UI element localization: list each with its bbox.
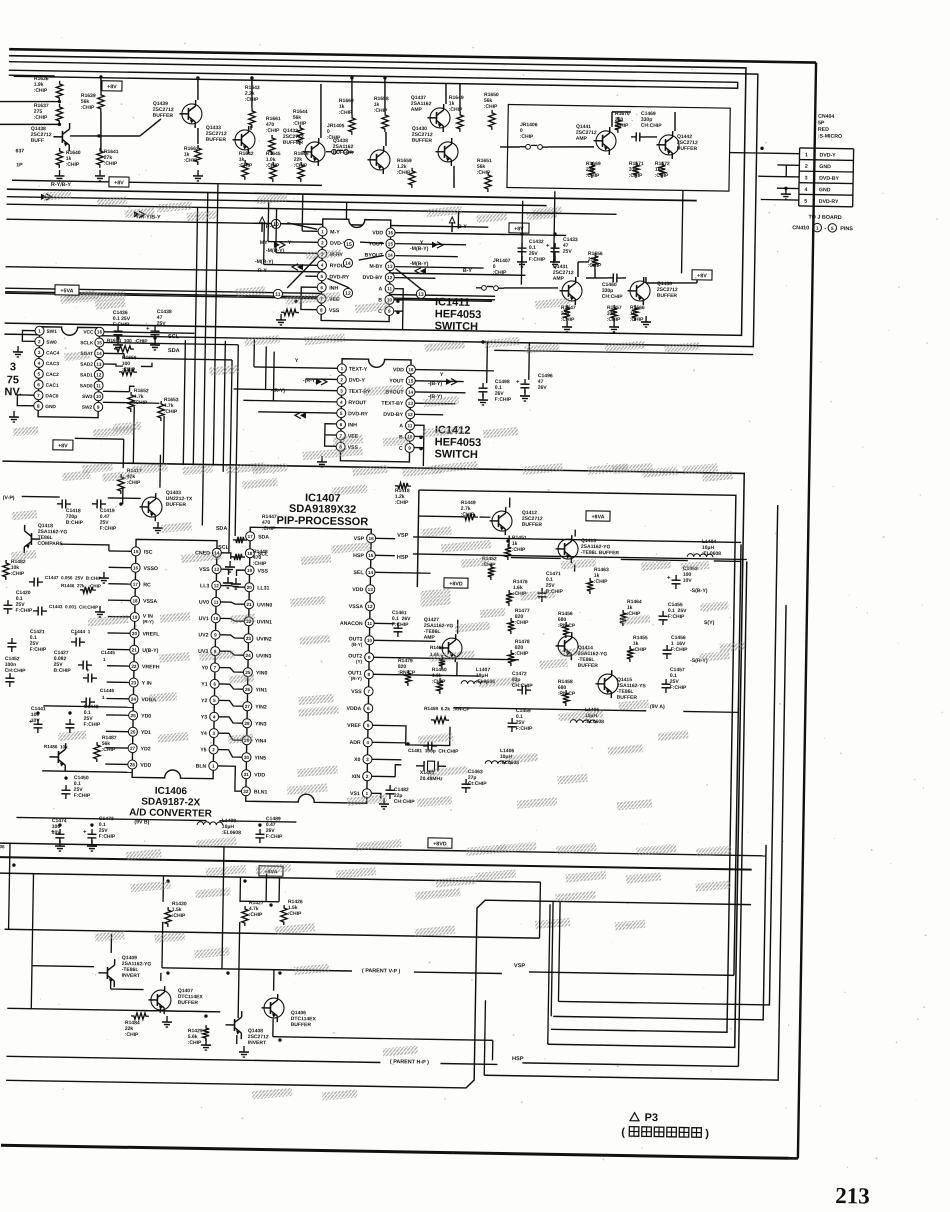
resistor R1642	[242, 160, 249, 180]
wire rail y881	[0, 873, 540, 882]
svg-text:(9V A): (9V A)	[650, 704, 665, 710]
svg-text:10: 10	[387, 297, 393, 302]
svg-text:11: 11	[367, 621, 372, 626]
wire box internals	[548, 146, 594, 148]
node circled 14	[343, 258, 352, 267]
capacitor C1482	[389, 785, 391, 790]
inductor L1406	[485, 761, 511, 765]
svg-text:+8V: +8V	[697, 273, 707, 279]
wire lane 740 VSP	[734, 544, 741, 975]
page border top line 1	[9, 49, 816, 62]
svg-text:BUFFER: BUFFER	[166, 502, 187, 508]
svg-text:HSP: HSP	[353, 553, 364, 559]
resistor R1478	[508, 650, 515, 666]
svg-text:Y4: Y4	[200, 731, 207, 737]
svg-text:COMPARE: COMPARE	[38, 541, 64, 547]
capacitor C1453	[675, 575, 677, 580]
svg-text:30: 30	[244, 755, 250, 760]
svg-text:YD2: YD2	[141, 746, 151, 752]
svg-text:R-Y: R-Y	[258, 268, 268, 274]
svg-text:27: 27	[130, 746, 136, 751]
svg-text:C1443 0.001 CH:CHIP: C1443 0.001 CH:CHIP	[49, 604, 98, 610]
svg-text:13: 13	[96, 362, 102, 367]
resistor R1448	[231, 554, 245, 561]
svg-text:10: 10	[213, 616, 219, 621]
svg-text::RN-CP: :RN-CP	[558, 623, 576, 629]
capacitor C1446	[81, 701, 86, 703]
wire VCC	[104, 332, 194, 334]
svg-text:(R-Y): (R-Y)	[143, 619, 155, 624]
svg-text:LL3: LL3	[200, 583, 209, 589]
svg-text::CHIP: :CHIP	[293, 121, 307, 127]
svg-text:CH:CHIP: CH:CHIP	[641, 123, 663, 129]
arrow Y right	[432, 242, 438, 248]
svg-text:F:CHIP: F:CHIP	[99, 834, 116, 840]
svg-text::CHIP: :CHIP	[512, 547, 526, 553]
svg-text:F:CHIP: F:CHIP	[671, 647, 688, 653]
svg-text:(V-P): (V-P)	[3, 495, 15, 501]
svg-text:27: 27	[245, 704, 251, 709]
svg-text:-TE86L BUFFER: -TE86L BUFFER	[581, 550, 620, 557]
wire rail y1016	[7, 1008, 215, 1011]
resistor R1645	[270, 162, 277, 182]
svg-text:CN404: CN404	[818, 114, 834, 120]
capacitor C1472	[517, 689, 522, 691]
svg-text:X0: X0	[354, 757, 361, 763]
svg-text:SCL: SCL	[168, 334, 180, 340]
svg-text:20: 20	[132, 631, 138, 636]
svg-text:+: +	[83, 829, 87, 835]
svg-text:(: (	[621, 1126, 625, 1138]
svg-text:SW3: SW3	[82, 394, 93, 400]
svg-text:BUFFER: BUFFER	[153, 113, 174, 119]
svg-text:17: 17	[133, 582, 139, 587]
wire Q1439 collector	[197, 78, 200, 100]
svg-text:VREFH: VREFH	[142, 664, 160, 670]
wire IC1412 right stubs	[415, 370, 493, 371]
resistor R1661	[269, 135, 276, 155]
svg-text::CHIP: :CHIP	[127, 480, 141, 486]
wire rail y900-1088 loop	[6, 892, 751, 1092]
resistor R1662	[195, 145, 202, 165]
transistor Q1430	[438, 142, 458, 162]
wire vss19 gnd	[236, 570, 245, 576]
resistor R1476	[506, 590, 513, 606]
svg-text:VSSO: VSSO	[144, 566, 159, 572]
svg-text:DVD-RY: DVD-RY	[329, 274, 349, 280]
resistor R1659	[409, 168, 416, 188]
svg-text:YD0: YD0	[141, 713, 151, 719]
svg-text:CH:CHIP: CH:CHIP	[394, 799, 416, 805]
wire band extensions	[507, 212, 617, 214]
svg-text:25: 25	[131, 713, 137, 718]
capacitor C1481	[423, 745, 428, 747]
op-amp IC1411 switch	[321, 219, 391, 322]
svg-text:B:CHIP: B:CHIP	[66, 520, 84, 526]
svg-text:10V: 10V	[683, 578, 693, 584]
capacitor C1452	[9, 673, 11, 678]
svg-text:F:CHIP: F:CHIP	[84, 722, 101, 728]
resistor to VSS	[281, 309, 299, 316]
wire cned/vss hooks	[221, 553, 231, 559]
resistor R1651	[485, 172, 492, 192]
svg-text:SDA: SDA	[258, 534, 269, 540]
wire top rail	[14, 76, 738, 88]
wire rail y865 thick	[0, 857, 752, 870]
svg-text:F:CHIP: F:CHIP	[30, 647, 47, 653]
svg-text:-: -	[824, 226, 826, 232]
transistor Q1415	[598, 674, 618, 694]
resistor R1451	[505, 544, 512, 560]
svg-text:+: +	[86, 668, 90, 674]
capacitor C1419	[92, 503, 97, 505]
power +5VA box left	[55, 285, 79, 295]
wire IC1411 left stubs	[302, 230, 317, 232]
svg-text:R-Y: R-Y	[266, 224, 276, 230]
wire res rails	[162, 876, 164, 902]
svg-text::CHIP: :CHIP	[374, 108, 388, 114]
capacitor C1463	[465, 779, 467, 784]
svg-text:ADR: ADR	[349, 740, 361, 746]
svg-text:RC: RC	[143, 582, 151, 588]
svg-text:GND: GND	[819, 187, 831, 193]
resistor R1479	[405, 670, 412, 686]
wire parent V-P line	[212, 969, 352, 971]
wire Q1442 to CN404 row1	[730, 153, 800, 154]
resistor R1427	[242, 906, 249, 926]
svg-text:13: 13	[368, 587, 374, 592]
svg-text:C: C	[399, 446, 403, 452]
resistor R1658	[382, 112, 389, 132]
wire SDA/SCL verticals	[235, 345, 238, 536]
svg-text:VDD: VDD	[372, 230, 383, 236]
svg-text:28: 28	[244, 721, 250, 726]
resistor R1641	[97, 148, 104, 168]
svg-text:CN410: CN410	[792, 225, 809, 231]
svg-text:TEXT-BY: TEXT-BY	[381, 401, 404, 407]
resistor R1653	[158, 401, 165, 421]
svg-text:23: 23	[246, 636, 252, 641]
svg-text::RN-CP: :RN-CP	[558, 691, 576, 697]
bus frame E (PIP inner)	[410, 490, 736, 1032]
capacitor C1436	[117, 326, 119, 331]
svg-text:AMP: AMP	[411, 107, 423, 113]
svg-text::CHIP: :CHIP	[172, 913, 186, 919]
wire vdd rail2	[42, 771, 132, 772]
ground Q1431 cluster	[566, 321, 568, 327]
svg-text:20: 20	[247, 585, 253, 590]
power +8V box d	[692, 270, 712, 280]
svg-text:1: 1	[805, 152, 808, 158]
svg-text:16: 16	[408, 367, 414, 372]
power +8VA box bottom	[259, 866, 283, 876]
svg-text::CHIP: :CHIP	[515, 620, 529, 626]
wire IC1411 stub verticals	[267, 201, 270, 241]
svg-text::CHIP: :CHIP	[477, 170, 491, 176]
svg-text:10V: 10V	[52, 830, 62, 836]
svg-text:11: 11	[214, 600, 219, 605]
wire r1484	[142, 1011, 220, 1012]
capacitor C1420	[7, 600, 9, 605]
wire vertical cluster x211	[213, 184, 218, 466]
svg-text:VSP: VSP	[397, 533, 409, 539]
inductor L1408	[197, 822, 223, 826]
svg-text:VDD: VDD	[140, 763, 151, 769]
wire R1639	[100, 77, 103, 92]
svg-text:11: 11	[96, 383, 101, 388]
svg-text:32: 32	[243, 789, 249, 794]
resistor R1636	[56, 81, 63, 101]
svg-text:INVERT: INVERT	[122, 973, 140, 979]
wire vdda rail	[43, 706, 133, 707]
wire Q1439 emitter	[197, 128, 199, 144]
svg-text:VS1: VS1	[350, 791, 360, 797]
wire HSP bottom segment	[522, 1063, 738, 1067]
svg-text:A: A	[399, 423, 403, 429]
wire q1412	[418, 515, 463, 518]
svg-text:VSS: VSS	[329, 308, 340, 314]
svg-text::CHIP: :CHIP	[515, 651, 529, 657]
resistor R1649	[457, 112, 464, 132]
wire 8vb rail	[16, 817, 206, 820]
svg-text:12: 12	[345, 291, 351, 297]
svg-text:AMP: AMP	[576, 136, 588, 142]
transistor Q1438a	[61, 131, 63, 143]
svg-text:14: 14	[368, 570, 374, 575]
svg-text::CHIP: :CHIP	[11, 571, 25, 577]
transistor Q1403	[142, 497, 162, 517]
svg-text:19: 19	[132, 615, 138, 620]
ground CN404 pin4	[785, 188, 787, 194]
svg-text::CHIP: :CHIP	[164, 409, 178, 415]
svg-text:TO J BOARD: TO J BOARD	[808, 214, 841, 221]
svg-text:(9V B): (9V B)	[134, 819, 149, 825]
transistor Q1436	[630, 281, 650, 301]
ground R1662	[197, 170, 199, 176]
node circled 13	[416, 289, 425, 298]
svg-text:YIN2: YIN2	[255, 704, 267, 710]
power +8V box c	[509, 223, 529, 233]
svg-text:-M(B-Y): -M(B-Y)	[410, 246, 429, 252]
svg-text:21: 21	[132, 648, 138, 653]
arrow RYOUT	[297, 264, 303, 270]
svg-text:1P: 1P	[16, 162, 23, 168]
transistor Q1431	[562, 281, 582, 301]
svg-text:HSP: HSP	[512, 1056, 524, 1062]
svg-text:Y3: Y3	[201, 714, 208, 720]
svg-text:R1461: R1461	[430, 645, 445, 651]
resistor R1418	[395, 483, 411, 490]
svg-text:12: 12	[367, 604, 373, 609]
svg-text:BUFFER: BUFFER	[206, 137, 227, 143]
svg-text:YIN0: YIN0	[256, 670, 268, 676]
svg-text:P3: P3	[644, 1112, 658, 1124]
resistor R1644	[297, 125, 304, 145]
svg-text:+8V: +8V	[58, 443, 68, 449]
svg-text:14: 14	[345, 261, 351, 267]
transistor Q1412	[492, 511, 512, 531]
svg-text:21: 21	[246, 602, 252, 607]
op-amp IC1407 PIP processor	[246, 527, 372, 803]
bus frame A top	[5, 56, 746, 336]
svg-text:26V: 26V	[538, 385, 548, 391]
ground C1498	[482, 394, 484, 400]
wire vertical cluster x221	[223, 341, 225, 472]
svg-text:25V: 25V	[157, 321, 167, 327]
resistor R1640	[56, 148, 63, 168]
svg-text:3: 3	[10, 361, 16, 373]
svg-text:F:CHIP: F:CHIP	[100, 526, 117, 532]
power +8VD box 2	[428, 838, 452, 848]
wire IC1411 right stubs	[396, 233, 506, 235]
svg-text:15: 15	[133, 549, 139, 554]
svg-text:VSSA: VSSA	[143, 599, 157, 605]
svg-text::CHIP: :CHIP	[397, 170, 411, 176]
label R-Y up arrow	[261, 222, 263, 232]
svg-text:RED: RED	[818, 127, 829, 133]
svg-text:ANACON: ANACON	[340, 621, 363, 627]
wire band R-Y/B-Y lines	[7, 189, 697, 200]
wire IC1411 ABC bracket	[394, 289, 403, 330]
scan smudges	[285, 292, 340, 305]
resistor R1484	[131, 1013, 149, 1020]
svg-text:F:CHIP: F:CHIP	[668, 614, 685, 620]
svg-text:SDA: SDA	[216, 526, 228, 532]
power +8VD box	[444, 578, 468, 588]
node circled 10	[271, 219, 280, 228]
capacitor C1432	[521, 243, 523, 248]
svg-text:XIN: XIN	[351, 774, 360, 780]
svg-text:1: 1	[102, 695, 105, 701]
svg-text:5: 5	[831, 226, 834, 231]
op-amp IC1412 switch	[340, 359, 411, 462]
svg-text:UV2: UV2	[198, 632, 208, 638]
page border right vertical	[798, 63, 816, 1159]
svg-text:5P: 5P	[818, 120, 825, 126]
svg-text::CHIP: :CHIP	[520, 134, 534, 140]
svg-text:16: 16	[97, 329, 103, 334]
capacitor C1445	[83, 677, 88, 679]
resistor R1463	[587, 578, 594, 594]
capacitor C1460	[608, 277, 613, 279]
svg-text:YIN5: YIN5	[254, 755, 266, 761]
wire s rail	[574, 530, 576, 537]
svg-text:12: 12	[408, 412, 414, 417]
wire SEL stub	[375, 571, 430, 574]
arrow B-Y right	[420, 268, 426, 274]
resistor R1477	[508, 618, 515, 634]
svg-text::S-MICRO: :S-MICRO	[818, 133, 842, 139]
svg-text:31: 31	[244, 772, 250, 777]
svg-text:+: +	[146, 326, 150, 332]
wire adr	[406, 742, 409, 745]
capacitor C1441	[37, 719, 39, 724]
svg-text:UV0: UV0	[199, 600, 209, 606]
wire vertical cluster x181	[183, 340, 185, 465]
svg-text:CH:CHIP: CH:CHIP	[602, 294, 624, 300]
capacitor C1469	[631, 136, 636, 138]
svg-text:637: 637	[15, 148, 24, 154]
svg-text:VSS: VSS	[257, 568, 268, 574]
svg-text:16: 16	[369, 536, 375, 541]
svg-text:INH: INH	[348, 422, 357, 428]
svg-text:VSS: VSS	[351, 689, 362, 695]
svg-text:1: 1	[103, 657, 106, 663]
wire q1406	[273, 970, 275, 991]
resistor R1660	[349, 115, 356, 135]
svg-text:75: 75	[7, 374, 19, 386]
resistor R1650	[489, 110, 496, 130]
svg-text:26: 26	[130, 730, 136, 735]
svg-text:BUFFER: BUFFER	[333, 150, 354, 156]
amp subcircuit box	[507, 104, 730, 191]
arrow ic1412 p5	[300, 412, 306, 418]
svg-text::CHIP: :CHIP	[615, 123, 629, 129]
svg-text:+: +	[667, 575, 671, 581]
capacitor C1473	[91, 829, 93, 834]
svg-text:15: 15	[408, 378, 414, 383]
svg-text::CHIP: :CHIP	[81, 105, 95, 111]
capacitor C1489	[259, 829, 261, 834]
svg-text:R-Y/B-Y: R-Y/B-Y	[51, 182, 72, 188]
svg-text:VREF: VREF	[347, 723, 361, 729]
svg-text:12: 12	[96, 372, 102, 377]
jumper JR1407	[482, 285, 487, 290]
svg-text:DVD-RY: DVD-RY	[348, 411, 368, 417]
transistor Q1408	[233, 1019, 235, 1031]
svg-text:+8V: +8V	[114, 180, 124, 186]
resistor R1459	[431, 717, 449, 724]
svg-text:(Y): (Y)	[356, 659, 363, 664]
transistor Q1427	[442, 638, 462, 658]
wire base Q1438a	[70, 135, 140, 137]
svg-text:C1444 1: C1444 1	[71, 629, 91, 635]
svg-text:11: 11	[275, 292, 281, 298]
wire ic1412 left stub extensions	[234, 388, 266, 391]
svg-text:VDD: VDD	[254, 772, 265, 778]
resistor R1637	[56, 104, 63, 124]
transistor Q1407	[151, 990, 171, 1010]
resistor R1643	[249, 108, 256, 128]
svg-text:BUFFER: BUFFER	[412, 138, 433, 144]
svg-text::CHIP: :CHIP	[266, 163, 280, 169]
svg-text::CHIP: :CHIP	[104, 161, 118, 167]
resistor R1456	[563, 622, 570, 638]
svg-text:+8VD: +8VD	[449, 581, 463, 587]
svg-text:HSP: HSP	[397, 555, 409, 561]
svg-text:B-Y: B-Y	[458, 224, 468, 230]
svg-text::CHIP: :CHIP	[249, 912, 263, 918]
svg-text:UVIN0: UVIN0	[257, 602, 272, 608]
wire top row links	[140, 119, 161, 137]
wire l1408 out	[219, 821, 296, 822]
arrow MY	[274, 242, 280, 248]
wire q1406 emitter run	[413, 1039, 493, 1040]
svg-text:17: 17	[248, 534, 254, 539]
svg-text:F:CHIP: F:CHIP	[113, 322, 130, 328]
wire midband verticals round3	[521, 201, 522, 285]
capacitor C1427	[78, 664, 83, 666]
svg-text::CHIP: :CHIP	[395, 500, 409, 506]
svg-text:VSSA: VSSA	[349, 604, 363, 610]
wire q1427 links	[457, 620, 459, 634]
svg-text:3: 3	[805, 175, 808, 181]
svg-text:Y2: Y2	[201, 698, 208, 704]
svg-text:PIP-PROCESSOR: PIP-PROCESSOR	[276, 515, 368, 529]
svg-text:CAC4: CAC4	[46, 350, 59, 356]
svg-text::CHIP: :CHIP	[184, 158, 198, 164]
svg-text:F:CHIP: F:CHIP	[670, 685, 687, 691]
